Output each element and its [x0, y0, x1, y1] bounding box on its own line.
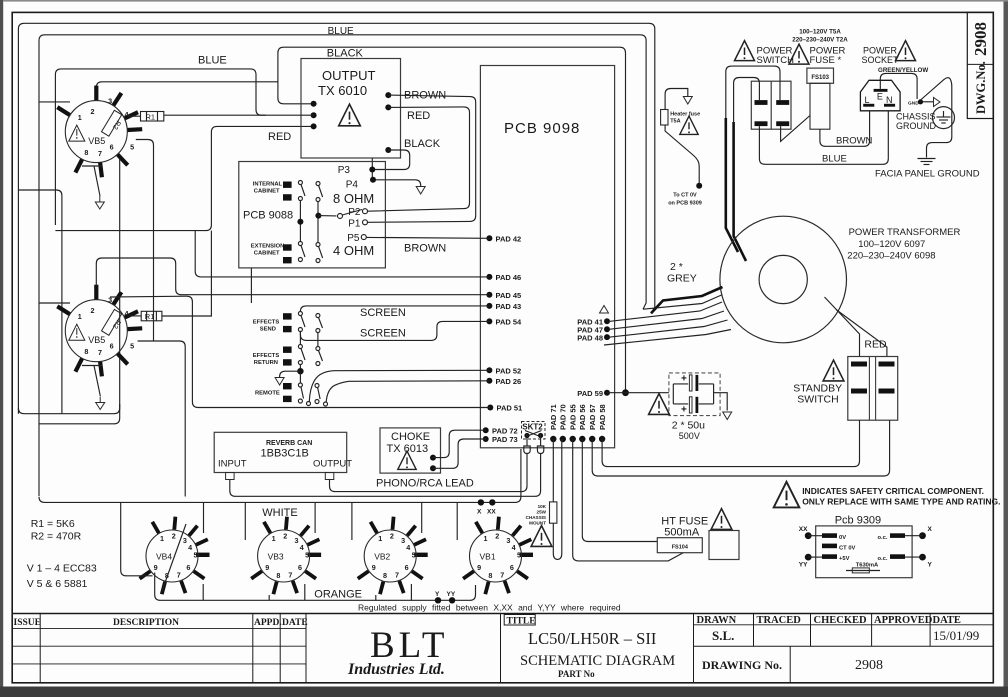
svg-text:DESCRIPTION: DESCRIPTION — [113, 618, 179, 628]
node PAD 59 — [577, 389, 610, 398]
capacitors 2*50u — [669, 373, 727, 416]
svg-text:XX: XX — [487, 509, 496, 516]
svg-text:GROUND: GROUND — [896, 121, 936, 131]
valve VB1 — [463, 517, 533, 595]
svg-text:SWITCH: SWITCH — [797, 394, 838, 406]
svg-text:Regulated supply fitted bet: Regulated supply fitted between X,XX and… — [358, 603, 621, 613]
svg-text:Y: Y — [928, 562, 933, 569]
warning capacitors — [649, 394, 670, 415]
svg-text:V 5 & 6 5881: V 5 & 6 5881 — [27, 578, 88, 590]
svg-text:PAD 56: PAD 56 — [578, 404, 587, 430]
svg-text:FS103: FS103 — [811, 75, 829, 81]
wire BLUE mains — [759, 111, 888, 165]
svg-text:REMOTE: REMOTE — [255, 391, 280, 397]
svg-text:VB1: VB1 — [480, 552, 496, 562]
svg-text:S.L.: S.L. — [712, 628, 734, 643]
svg-text:PART No: PART No — [558, 669, 595, 679]
wire earth green/yellow — [880, 73, 917, 99]
fuse HT FS104 — [657, 516, 739, 560]
reverb can 1BB3C1B — [214, 432, 352, 479]
svg-text:PAD 51: PAD 51 — [497, 404, 523, 413]
svg-text:REVERB CAN: REVERB CAN — [266, 440, 312, 447]
svg-text:15/01/99: 15/01/99 — [933, 628, 979, 643]
wire heater loop 2 — [39, 35, 646, 496]
ground lead VB5 lower — [82, 366, 105, 410]
svg-text:PAD 45: PAD 45 — [496, 291, 522, 300]
svg-text:SEND: SEND — [260, 327, 276, 333]
svg-text:GND: GND — [908, 101, 919, 107]
wire PAD 59 to caps — [607, 392, 669, 394]
svg-text:PAD 48: PAD 48 — [577, 333, 603, 342]
wire VB3 top stubs — [245, 502, 315, 540]
node X — [477, 499, 484, 515]
svg-text:V 1 – 4 ECC83: V 1 – 4 ECC83 — [27, 563, 97, 575]
svg-text:10K: 10K — [538, 504, 547, 509]
svg-text:FACIA PANEL GROUND: FACIA PANEL GROUND — [875, 169, 980, 180]
node PAD 46 — [486, 273, 521, 282]
svg-text:TITLE: TITLE — [507, 616, 536, 626]
svg-text:RETURN: RETURN — [254, 360, 278, 366]
switch internal cabinet contacts — [298, 181, 322, 220]
svg-text:DWG.No.: DWG.No. — [974, 61, 988, 114]
jack EXTENSION CABINET — [251, 244, 292, 264]
svg-text:PAD 57: PAD 57 — [588, 404, 597, 430]
label POWER SOCKET — [862, 46, 900, 66]
wire transformer RED secondaries — [825, 297, 887, 357]
wire PAD 55 to HT fuse — [573, 439, 684, 561]
svg-text:PAD 55: PAD 55 — [568, 404, 577, 430]
svg-text:PCB 9098: PCB 9098 — [504, 120, 580, 137]
svg-text:YY: YY — [447, 591, 456, 598]
wire TX black to P3 — [372, 150, 409, 170]
svg-text:RED: RED — [268, 131, 291, 143]
wire PAD 58 to standby — [602, 420, 859, 466]
facia panel ground symbol — [918, 159, 936, 165]
wire screen upper to PAD 43 — [300, 306, 489, 312]
node PAD 73 — [483, 435, 518, 444]
node PAD 54 — [486, 318, 522, 327]
wire switch to fuse diagonal — [781, 116, 810, 142]
safety note — [774, 482, 1001, 508]
wire VB2 top stubs — [352, 502, 422, 540]
svg-text:PAD 26: PAD 26 — [496, 377, 522, 386]
switch remote contacts — [298, 373, 327, 406]
title block — [12, 614, 993, 683]
node PAD 51 — [487, 404, 522, 413]
wire R2 node to RED drop — [55, 126, 313, 230]
wire VB3 bottom stubs — [269, 584, 305, 600]
svg-text:P4: P4 — [346, 180, 359, 191]
wire VB4 bottom stub — [202, 584, 204, 600]
svg-text:TX 6010: TX 6010 — [318, 83, 367, 98]
wire VB5b pin3 to PAD 51 — [110, 296, 490, 407]
switch POWER SWITCH (DPST) — [751, 81, 791, 129]
node PAD 26 — [486, 377, 521, 386]
svg-text:FUSE *: FUSE * — [810, 55, 842, 66]
label POWER TRANSFORMER — [847, 227, 960, 262]
wire P3 drop — [371, 158, 373, 180]
svg-text:YY: YY — [799, 562, 808, 569]
svg-text:ISSUE: ISSUE — [14, 618, 41, 628]
svg-text:PAD 59: PAD 59 — [577, 389, 603, 398]
heater fuse T5A — [661, 89, 703, 207]
svg-text:0V: 0V — [839, 535, 846, 541]
wire P5 BROWN to PAD 42 — [366, 236, 489, 239]
svg-text:SCREEN: SCREEN — [360, 307, 406, 319]
power socket IEC inlet — [860, 80, 900, 111]
svg-text:OUTPUT: OUTPUT — [313, 459, 352, 470]
node PAD 57 — [588, 404, 597, 442]
wire left bottom link — [18, 408, 62, 414]
svg-text:N: N — [886, 95, 893, 105]
switch effects send contacts — [298, 312, 322, 333]
warning power socket — [896, 41, 916, 61]
wire feed PAD 46 — [195, 231, 489, 277]
label STANDBY SWITCH — [793, 383, 842, 406]
svg-text:CT 0V: CT 0V — [839, 545, 856, 551]
svg-text:BLT: BLT — [370, 625, 448, 666]
chassis ground lug — [908, 98, 940, 107]
svg-text:T5A: T5A — [670, 119, 680, 125]
resistor R1 (upper) — [128, 112, 314, 122]
svg-text:on PCB 9309: on PCB 9309 — [668, 201, 702, 207]
warning standby — [823, 360, 844, 381]
ground lead VB5 upper — [82, 166, 104, 209]
wire VB5b pin5 to effects — [138, 341, 186, 497]
svg-text:2 *: 2 * — [670, 261, 683, 273]
wire PCB 9088 drop — [250, 268, 252, 303]
svg-text:POWER: POWER — [863, 46, 898, 56]
wire remote to PAD 52 — [309, 370, 489, 401]
svg-text:INTERNAL: INTERNAL — [253, 182, 283, 188]
svg-text:RED: RED — [864, 339, 887, 351]
svg-text:CABINET: CABINET — [254, 189, 280, 195]
switch impedance selector — [318, 209, 367, 240]
wire transformer winding fan — [604, 287, 731, 345]
valve VB2 — [358, 517, 428, 595]
wire P4 to ground — [373, 180, 421, 186]
wire VB2 bottom stubs — [376, 584, 412, 600]
svg-text:EFFECTS: EFFECTS — [253, 320, 280, 326]
svg-text:PAD 54: PAD 54 — [496, 318, 523, 327]
svg-text:BLUE: BLUE — [822, 154, 847, 165]
wire switch feeds to transformer grey pair — [726, 66, 780, 124]
svg-text:BLACK: BLACK — [404, 138, 441, 150]
svg-text:BROWN: BROWN — [404, 243, 446, 255]
svg-text:DATE: DATE — [933, 615, 961, 626]
svg-text:INDICATES SAFETY CRITICAL C: INDICATES SAFETY CRITICAL COMPONENT. — [802, 486, 984, 496]
resistor R1 (lower) — [129, 311, 162, 321]
node PAD 42 — [486, 235, 521, 244]
wire VB4 top stubs — [121, 502, 204, 575]
node PAD 72 — [483, 426, 518, 435]
svg-text:220–230–240V T2A: 220–230–240V T2A — [792, 37, 848, 44]
wire choke to PAD 72 — [433, 430, 486, 457]
node PAD 56 — [578, 404, 587, 442]
jack INTERNAL CABINET — [253, 182, 292, 201]
jack EFFECTS RETURN — [253, 347, 292, 367]
wire TX brown to P1 loop — [368, 95, 476, 222]
svg-text:P2: P2 — [348, 207, 361, 218]
svg-text:500mA: 500mA — [664, 527, 700, 539]
warning power fuse — [789, 44, 809, 64]
transformer OUTPUT TX 6010 — [301, 59, 401, 159]
svg-text:2 * 50u: 2 * 50u — [672, 420, 705, 432]
svg-text:PAD 73: PAD 73 — [492, 435, 518, 444]
wire through VB4 — [162, 524, 186, 591]
svg-text:APPROVED: APPROVED — [874, 615, 933, 626]
svg-text:VB4: VB4 — [156, 552, 172, 562]
wire left jog — [18, 190, 62, 414]
svg-text:R1 = 5K6: R1 = 5K6 — [31, 518, 75, 530]
valve VB4 — [140, 517, 210, 595]
wire PAD 57 to standby — [592, 420, 889, 476]
valve VB5 (V5) — [57, 86, 142, 178]
svg-text:8 OHM: 8 OHM — [333, 191, 374, 206]
wire reverb output lead — [330, 454, 528, 492]
svg-text:CHOKE: CHOKE — [391, 431, 430, 443]
board Pcb 9309 — [799, 515, 933, 578]
wire VB5a pin2 feed — [96, 82, 278, 88]
wire VB5b pin1 stub — [39, 302, 70, 304]
wire VB1 top stub — [456, 502, 458, 540]
resistor 10K chassis mount loop pads 71/70 — [526, 439, 562, 559]
PCB 9098 board — [480, 66, 614, 448]
safety triangle above PAD 41 — [600, 306, 609, 314]
svg-text:EXTENSION: EXTENSION — [251, 244, 284, 250]
choke TX 6013 — [380, 428, 441, 473]
svg-text:2908: 2908 — [971, 22, 990, 56]
board PCB 9088 — [239, 162, 386, 268]
node PAD 71 — [549, 404, 558, 442]
svg-text:DATE: DATE — [282, 618, 308, 628]
svg-text:220–230–240V 6098: 220–230–240V 6098 — [847, 251, 935, 262]
svg-text:EFFECTS: EFFECTS — [253, 353, 280, 359]
svg-text:R2 = 470R: R2 = 470R — [31, 531, 82, 543]
power transformer toroid — [720, 216, 847, 343]
svg-text:25W: 25W — [537, 510, 547, 515]
node P3 — [338, 165, 376, 176]
wire grey pair thick — [726, 118, 746, 261]
svg-text:SOCKET: SOCKET — [862, 55, 900, 65]
label 2 * 50u 500V — [672, 420, 705, 442]
svg-text:Y: Y — [435, 591, 440, 598]
wire heater bus top — [39, 449, 521, 502]
svg-text:o.c.: o.c. — [878, 535, 888, 541]
label POWER FUSE — [810, 46, 846, 67]
svg-text:To CT 0V: To CT 0V — [673, 193, 697, 199]
svg-text:PAD 71: PAD 71 — [549, 404, 558, 430]
wire choke to PAD 73 — [433, 439, 486, 468]
chassis ground symbol — [933, 107, 955, 129]
wire screen lower to PAD 54 — [300, 321, 489, 340]
valve VB5 (V6) — [57, 285, 142, 377]
title area — [500, 614, 502, 683]
svg-text:BLUE: BLUE — [198, 55, 227, 67]
svg-text:E: E — [877, 92, 883, 102]
svg-text:o.c.: o.c. — [878, 556, 888, 562]
svg-text:POWER TRANSFORMER: POWER TRANSFORMER — [849, 227, 961, 238]
svg-text:Heater fuse: Heater fuse — [670, 112, 700, 118]
svg-text:SCHEMATIC DIAGRAM: SCHEMATIC DIAGRAM — [520, 653, 675, 669]
svg-text:PAD 52: PAD 52 — [496, 367, 522, 376]
svg-text:1BB3C1B: 1BB3C1B — [261, 448, 309, 460]
node PAD 41 — [577, 318, 610, 327]
svg-text:PAD 72: PAD 72 — [492, 426, 518, 435]
wire BROWN mains — [820, 111, 870, 147]
svg-text:SCREEN: SCREEN — [360, 328, 406, 340]
switch effects return contacts — [298, 332, 322, 372]
svg-text:+: + — [681, 374, 687, 385]
node Y — [435, 591, 441, 604]
svg-text:MOUNT: MOUNT — [529, 521, 546, 526]
svg-text:PAD 46: PAD 46 — [496, 273, 522, 282]
svg-text:Pcb 9309: Pcb 9309 — [835, 515, 881, 527]
svg-text:ORANGE: ORANGE — [314, 589, 362, 601]
label 2 * GREY — [667, 261, 697, 285]
wire TX red to P2 loop — [368, 107, 470, 211]
junction speaker select — [297, 219, 303, 225]
wire HT B+ run to PAD 59 — [284, 47, 626, 393]
svg-text:INPUT: INPUT — [218, 459, 247, 470]
svg-text:FS104: FS104 — [672, 545, 689, 551]
svg-text:100–120V T5A: 100–120V T5A — [799, 29, 841, 36]
svg-text:PAD 42: PAD 42 — [496, 235, 522, 244]
svg-text:LC50/LH50R – SII: LC50/LH50R – SII — [528, 629, 656, 648]
wire PAD 56 to HT fuse — [582, 439, 657, 542]
svg-text:PAD 70: PAD 70 — [559, 404, 568, 430]
svg-text:P3: P3 — [338, 165, 351, 176]
node PAD 47 — [577, 325, 610, 334]
junction impedance common — [315, 213, 321, 219]
connector SKT2 — [522, 422, 546, 454]
wire chassis to facia ground loop — [920, 78, 952, 158]
svg-text:CHASSIS: CHASSIS — [896, 112, 936, 122]
svg-text:VB3: VB3 — [268, 552, 284, 562]
svg-text:4 OHM: 4 OHM — [333, 243, 374, 258]
node PAD 52 — [486, 367, 521, 376]
svg-text:2908: 2908 — [855, 658, 883, 673]
wire heater bus bottom — [155, 573, 476, 600]
svg-text:WHITE: WHITE — [262, 507, 297, 519]
svg-text:GREY: GREY — [667, 273, 697, 285]
wire BLUE top loop — [18, 23, 654, 413]
node PAD 58 — [598, 404, 607, 442]
wire R1b to TX red node — [162, 231, 212, 316]
junction effects ground — [297, 368, 303, 374]
wire VB5a pin1 stub — [39, 101, 70, 103]
wire feed PAD 45 — [96, 258, 489, 295]
wire heater branch lower — [39, 404, 120, 424]
node PAD 43 — [486, 302, 521, 311]
wire VB5a pin5 link down — [136, 140, 154, 342]
svg-text:DRAWING No.: DRAWING No. — [702, 658, 782, 672]
svg-text:+: + — [681, 405, 687, 416]
svg-text:CHECKED: CHECKED — [814, 615, 868, 626]
ground capacitors — [723, 412, 732, 420]
DWG number strip — [967, 12, 993, 118]
warning HT fuse — [711, 509, 732, 530]
svg-text:RED: RED — [407, 110, 430, 122]
svg-text:100–120V 6097: 100–120V 6097 — [858, 239, 925, 250]
wire VB5a pin6 drop — [62, 155, 126, 414]
ground arrow near P4 — [416, 187, 425, 195]
junction PAD 59 wire — [622, 389, 629, 396]
label CHASSIS GROUND — [896, 112, 936, 132]
valve VB3 — [251, 517, 321, 595]
svg-text:X: X — [477, 509, 482, 516]
svg-text:APPD.: APPD. — [254, 618, 282, 628]
wire BLUE left inner loop — [55, 69, 266, 225]
svg-text:+5V: +5V — [839, 556, 850, 562]
svg-text:R1: R1 — [145, 312, 155, 321]
svg-text:P1: P1 — [348, 219, 361, 230]
node XX — [487, 499, 496, 515]
svg-text:DRAWN: DRAWN — [697, 615, 737, 626]
revision table — [39, 614, 41, 683]
node PAD 48 — [577, 333, 610, 342]
ground effects — [275, 371, 300, 385]
svg-text:R1: R1 — [146, 112, 156, 121]
svg-text:VB2: VB2 — [374, 552, 390, 562]
warning power switch — [735, 41, 755, 61]
svg-text:XX: XX — [799, 526, 808, 533]
svg-text:PAD 58: PAD 58 — [598, 404, 607, 430]
node PAD 70 — [559, 404, 568, 442]
svg-text:TRACED: TRACED — [757, 615, 802, 626]
node PAD 45 — [486, 291, 521, 300]
svg-text:PAD 43: PAD 43 — [496, 302, 522, 311]
node P4 — [346, 177, 376, 191]
svg-text:PCB 9088: PCB 9088 — [243, 210, 293, 222]
svg-text:X: X — [928, 526, 933, 533]
switch STANDBY (DPST) — [848, 357, 898, 421]
wire reverb input lead — [230, 454, 541, 497]
svg-text:BROWN: BROWN — [836, 136, 873, 147]
svg-text:Industries Ltd.: Industries Ltd. — [347, 661, 445, 678]
approval table — [693, 614, 695, 683]
fuse FS103 — [807, 68, 834, 129]
page edge shading — [0, 0, 3, 697]
svg-text:500V: 500V — [679, 431, 700, 441]
svg-text:ONLY REPLACE WITH SAME TYP: ONLY REPLACE WITH SAME TYPE AND RATING. — [802, 497, 1000, 507]
svg-text:BLACK: BLACK — [327, 48, 364, 60]
switch extension cabinet contacts — [298, 218, 322, 263]
wire remote to PAD 26 — [326, 381, 489, 402]
svg-text:CHASSIS: CHASSIS — [526, 515, 546, 520]
warning 10K resistor — [531, 526, 552, 547]
label POWER SWITCH — [757, 46, 795, 67]
node YY — [447, 591, 456, 604]
jack REMOTE — [255, 383, 292, 402]
svg-text:OUTPUT: OUTPUT — [322, 68, 376, 83]
jack EFFECTS SEND — [253, 313, 292, 332]
node PAD 55 — [568, 404, 577, 442]
svg-text:L: L — [865, 95, 870, 105]
svg-text:PHONO/RCA LEAD: PHONO/RCA LEAD — [376, 478, 474, 490]
wire TX primary drop — [278, 47, 314, 104]
svg-text:CABINET: CABINET — [254, 251, 280, 257]
